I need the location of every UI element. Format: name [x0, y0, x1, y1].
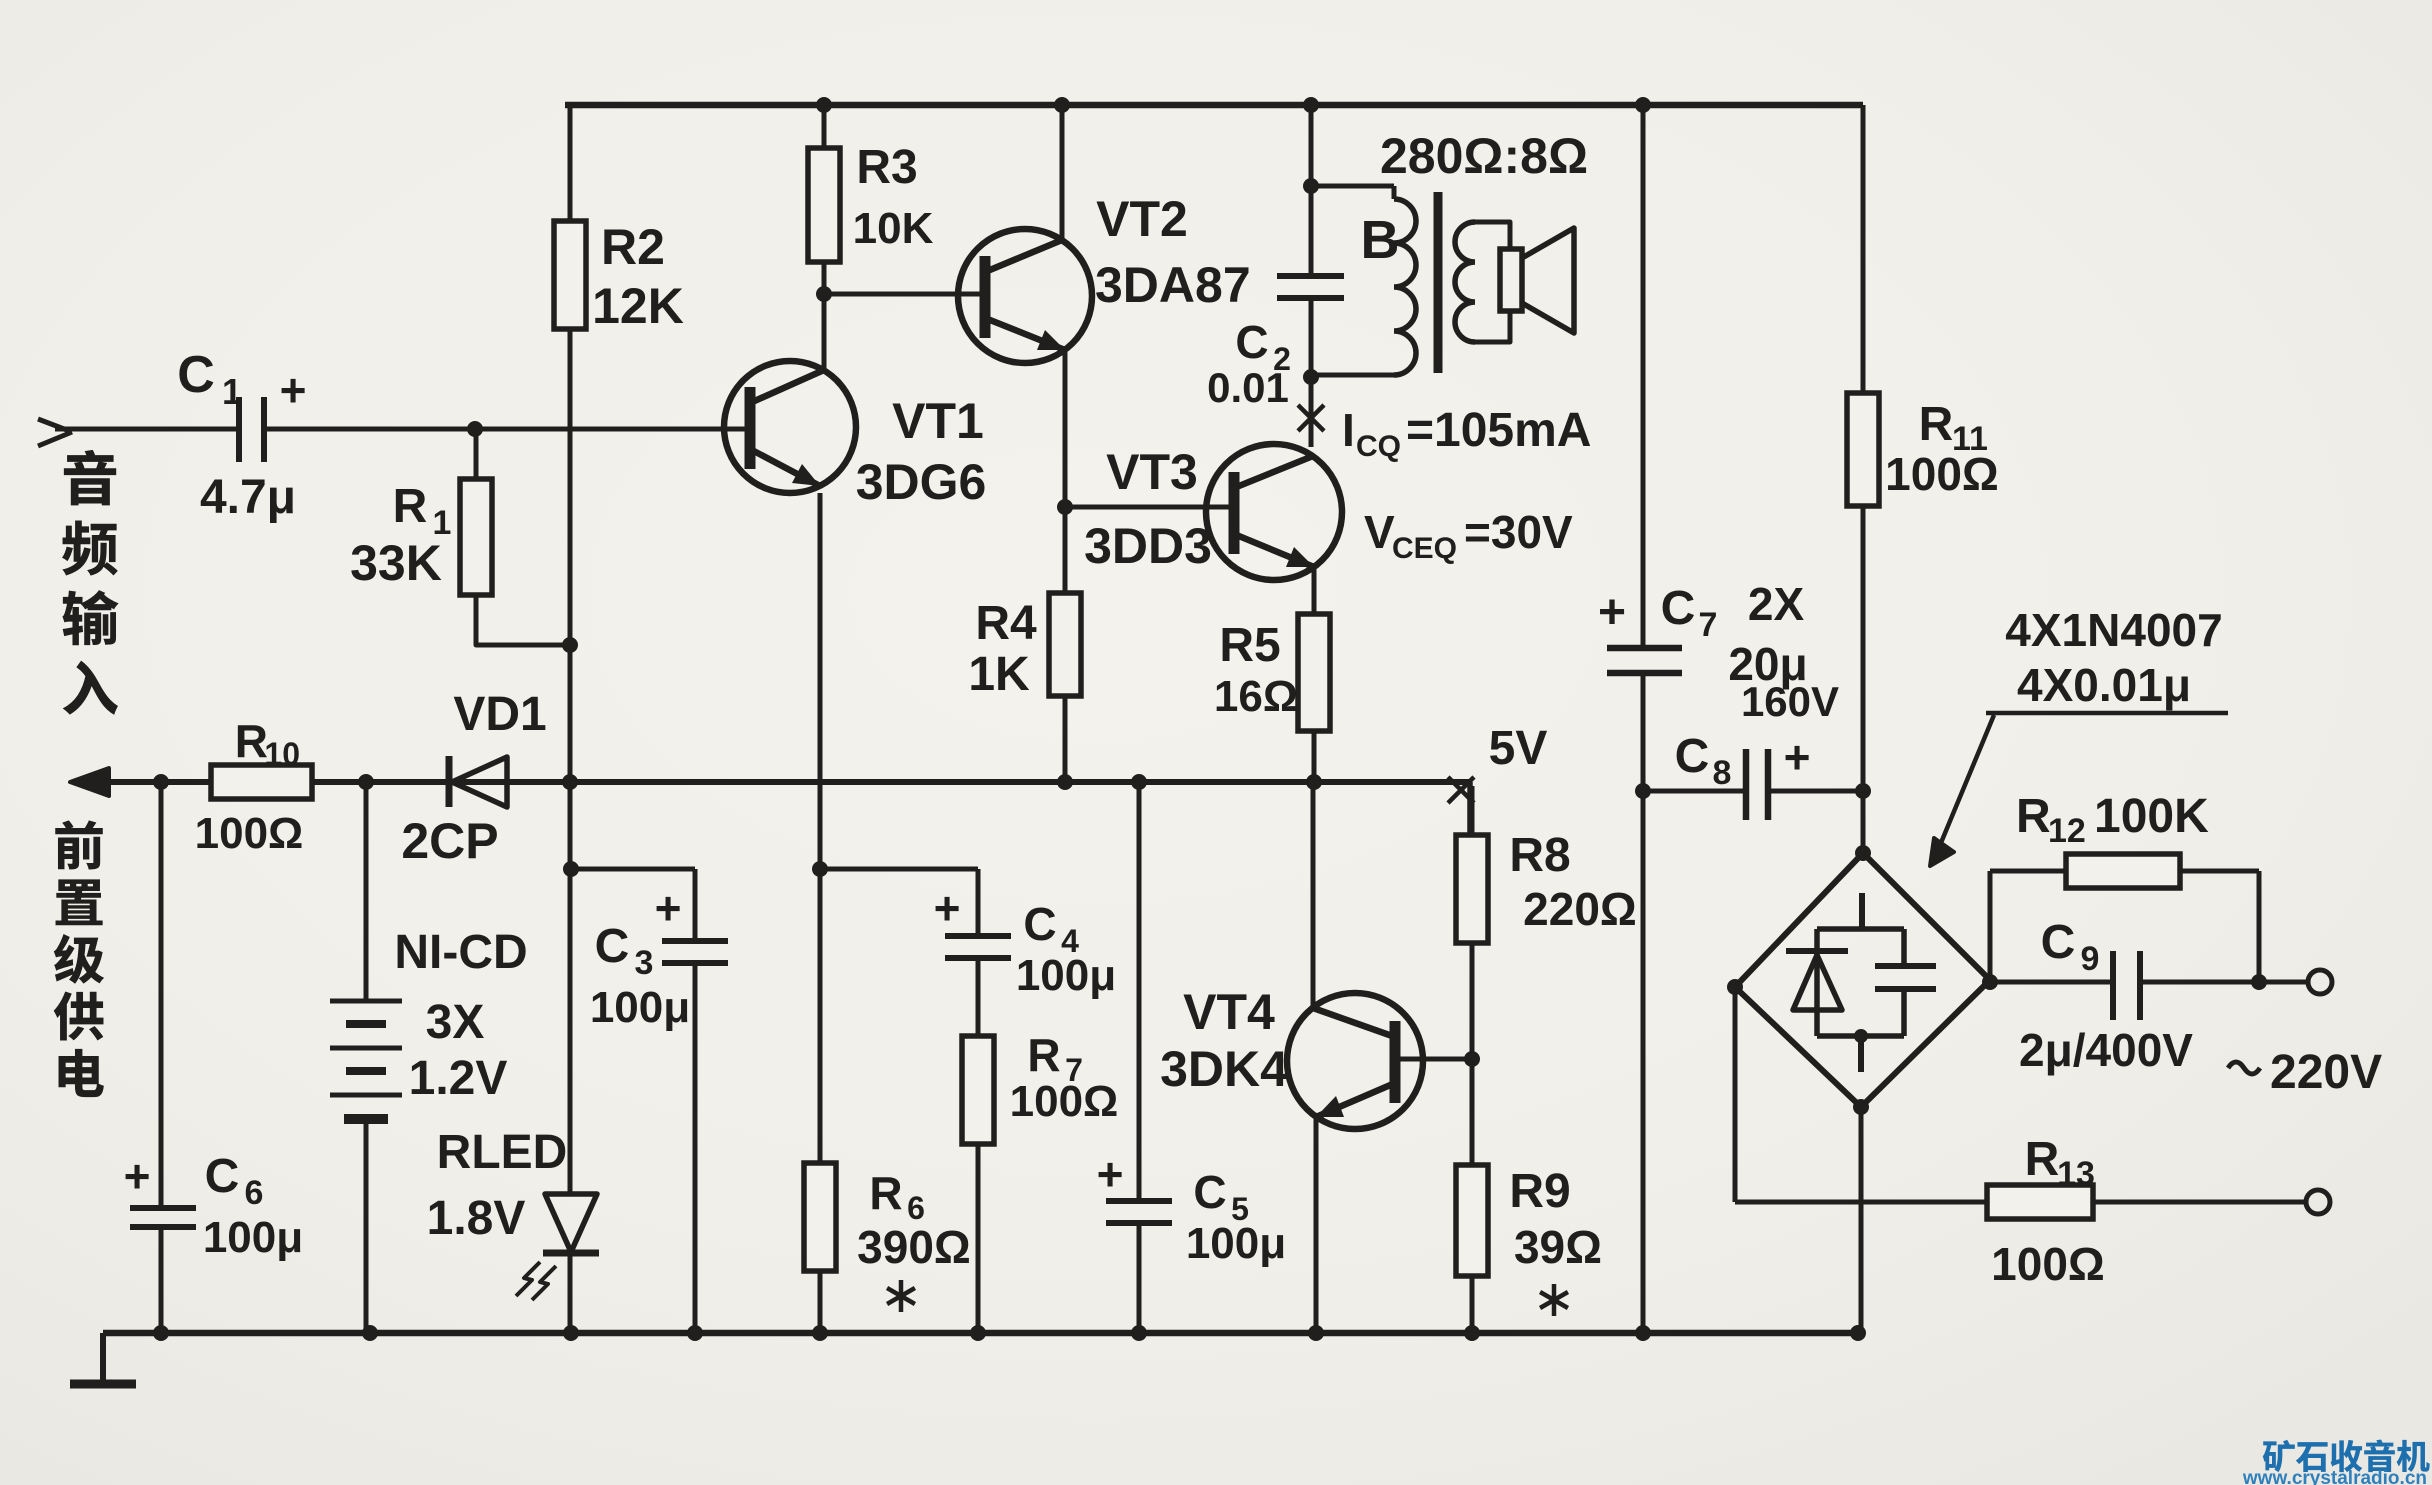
- wire R12 left drop: [1988, 871, 1993, 982]
- node C8/R11: [1855, 783, 1871, 799]
- svg-text:3DG6: 3DG6: [856, 454, 987, 510]
- svg-text:+: +: [1598, 586, 1626, 639]
- wire LED cathode to ground rail: [568, 1253, 573, 1333]
- svg-text:R4: R4: [975, 597, 1037, 650]
- svg-text:100μ: 100μ: [1016, 951, 1116, 1000]
- wire VT4 emitter: [1314, 1114, 1319, 1333]
- svg-text:160V: 160V: [1741, 678, 1839, 725]
- svg-text:R: R: [235, 715, 268, 767]
- wire C5 column top: [1137, 782, 1142, 1201]
- svg-text:100Ω: 100Ω: [1885, 448, 1999, 500]
- wire C6 top: [159, 782, 164, 1208]
- node mid rail VD1: [562, 774, 578, 790]
- node ground bridge: [1850, 1325, 1866, 1341]
- transistor VT3 3DD3: [1206, 444, 1342, 580]
- svg-text:2CP: 2CP: [401, 813, 498, 869]
- wire C7 column top: [1641, 105, 1646, 648]
- svg-text:2μ/400V: 2μ/400V: [2019, 1024, 2193, 1076]
- wire R8/R9 column: [1470, 786, 1475, 1333]
- node C4 branch: [812, 861, 828, 877]
- wire branch to C4: [820, 867, 978, 872]
- svg-text:39Ω: 39Ω: [1514, 1221, 1602, 1273]
- node mid rail C5: [1131, 774, 1147, 790]
- speaker: [1500, 249, 1522, 311]
- svg-text:+: +: [124, 1150, 151, 1202]
- wire C1 to VT1 base: [264, 427, 750, 432]
- svg-text:100μ: 100μ: [1186, 1219, 1286, 1268]
- wire R2/R1/VD1 column: [568, 105, 573, 1194]
- capacitor C4: [945, 933, 1011, 939]
- wire branch to C3: [571, 867, 695, 872]
- wire corner into R8: [1467, 782, 1473, 835]
- wire VT2 collector: [1060, 105, 1065, 240]
- wire C4 top: [976, 869, 981, 936]
- wire top supply rail: [565, 102, 1863, 109]
- svg-text:13: 13: [2057, 1155, 2095, 1193]
- svg-text:5V: 5V: [1489, 722, 1548, 775]
- transformer core: [1434, 192, 1443, 373]
- svg-text:CEQ: CEQ: [1392, 532, 1457, 565]
- capacitor C3: [662, 938, 728, 944]
- node bridge left: [1727, 979, 1743, 995]
- node R12/C9 corner: [2251, 974, 2267, 990]
- transistor VT1 3DG6: [724, 361, 856, 493]
- svg-text:V: V: [1364, 506, 1395, 558]
- svg-text:R5: R5: [1219, 619, 1280, 672]
- svg-text:8: 8: [1713, 754, 1732, 792]
- node transformer bottom tap: [1303, 369, 1319, 385]
- wire battery bottom: [364, 1119, 369, 1333]
- wire VT4 base to R8/R9: [1392, 1057, 1472, 1062]
- resistor R12: [2066, 854, 2180, 888]
- svg-text:3X: 3X: [426, 996, 485, 1049]
- capacitor C6: [130, 1205, 196, 1211]
- resistor R5: [1298, 614, 1330, 731]
- node top rail VT2 collector: [1054, 97, 1070, 113]
- svg-text:33K: 33K: [350, 535, 442, 591]
- svg-text:NI-CD: NI-CD: [394, 926, 527, 979]
- node R6 selection mark: [899, 1280, 904, 1312]
- bridge inner diode and capacitor: [1859, 893, 1865, 929]
- transistor VT4 3DK4: [1287, 993, 1423, 1129]
- node mid rail R5/VT4: [1306, 774, 1322, 790]
- resistor R10: [211, 765, 312, 799]
- node mid rail battery: [358, 774, 374, 790]
- wire middle rail (preamp supply / 5V): [74, 779, 1470, 785]
- wire C3 top: [693, 869, 698, 941]
- svg-text:R: R: [1027, 1029, 1060, 1081]
- svg-text:0.01: 0.01: [1207, 364, 1289, 411]
- node ground battery: [362, 1325, 378, 1341]
- svg-text:100μ: 100μ: [203, 1213, 303, 1262]
- node R9 selection mark: [1552, 1284, 1557, 1316]
- LED RLED: [545, 1194, 597, 1252]
- node ground R9: [1464, 1325, 1480, 1341]
- arrow from label to bridge: [1938, 715, 1994, 850]
- svg-text:+: +: [1784, 731, 1811, 783]
- svg-text:R: R: [2025, 1133, 2060, 1186]
- wire R12 right drop: [2257, 871, 2262, 982]
- svg-text:R9: R9: [1509, 1165, 1570, 1218]
- svg-text:3DD3: 3DD3: [1084, 518, 1212, 574]
- svg-text:6: 6: [245, 1174, 264, 1212]
- wire R11 column to bridge: [1861, 105, 1866, 853]
- svg-text:=105mA: =105mA: [1406, 404, 1591, 457]
- node ground C7: [1635, 1325, 1651, 1341]
- node bridge right: [1982, 974, 1998, 990]
- svg-text:C: C: [1023, 898, 1056, 950]
- svg-text:1: 1: [222, 371, 242, 412]
- capacitor C5: [1106, 1198, 1172, 1204]
- svg-text:+: +: [1097, 1148, 1124, 1200]
- wire VT1 emitter / R6 column: [818, 493, 823, 1333]
- node top rail C7: [1635, 97, 1651, 113]
- node ground C3: [687, 1325, 703, 1341]
- svg-text:=30V: =30V: [1464, 506, 1573, 558]
- svg-text:B: B: [1361, 210, 1400, 270]
- capacitor C8: [1743, 749, 1750, 820]
- node top rail R3: [816, 97, 832, 113]
- node audio input arrow: [38, 419, 72, 432]
- svg-text:R: R: [1919, 398, 1954, 451]
- wire R13 line: [1735, 1200, 2306, 1205]
- svg-text:220Ω: 220Ω: [1523, 883, 1637, 935]
- transformer B primary: [1311, 184, 1394, 189]
- svg-text:CQ: CQ: [1356, 430, 1401, 463]
- svg-text:C: C: [2041, 916, 2076, 969]
- svg-text:RLED: RLED: [437, 1126, 568, 1179]
- svg-text:100K: 100K: [2094, 790, 2209, 843]
- svg-text:4X1N4007: 4X1N4007: [2005, 604, 2222, 656]
- resistor R6: [804, 1163, 836, 1271]
- node C7/C8: [1635, 783, 1651, 799]
- node bridge bottom: [1853, 1099, 1869, 1115]
- battery NI-CD 3x1.2V: [330, 999, 402, 1004]
- wire C8 right: [1768, 789, 1863, 794]
- svg-text:4.7μ: 4.7μ: [200, 471, 296, 524]
- capacitor C1: [236, 397, 242, 462]
- svg-text:R: R: [393, 480, 428, 533]
- node input / R1: [467, 421, 483, 437]
- svg-text:220V: 220V: [2270, 1046, 2382, 1099]
- label preamp supply (Chinese): [55, 820, 103, 869]
- capacitor C7: [1607, 645, 1682, 652]
- node bridge top: [1855, 845, 1871, 861]
- svg-text:+: +: [655, 882, 682, 934]
- svg-text:VT4: VT4: [1183, 984, 1275, 1040]
- svg-text:3: 3: [635, 944, 654, 982]
- svg-text:9: 9: [2081, 940, 2100, 978]
- wire C3 bottom: [693, 963, 698, 1333]
- wire to C8 left: [1644, 789, 1746, 794]
- svg-text:10: 10: [264, 736, 300, 772]
- node mid rail C6: [153, 774, 169, 790]
- resistor R8: [1456, 835, 1488, 943]
- svg-text:VD1: VD1: [453, 688, 546, 741]
- node VT1 collector / R3: [816, 286, 832, 302]
- resistor R3: [808, 148, 840, 262]
- node top rail transformer: [1303, 97, 1319, 113]
- node VT4 base: [1464, 1051, 1480, 1067]
- node preamp supply arrow: [70, 768, 109, 796]
- wire C9 left: [1990, 980, 2113, 985]
- node 5V measure point: [1448, 777, 1474, 803]
- diode VD1 2CP: [446, 756, 453, 807]
- svg-text:3DA87: 3DA87: [1095, 257, 1251, 313]
- svg-text:2X: 2X: [1748, 578, 1805, 630]
- wire R1 top: [474, 429, 479, 479]
- node ground C6: [153, 1325, 169, 1341]
- node ICQ measure point: [1298, 405, 1324, 431]
- svg-text:1.2V: 1.2V: [409, 1052, 508, 1105]
- svg-text:7: 7: [1699, 606, 1718, 644]
- wire C2 column top: [1309, 105, 1314, 276]
- watermark crystalradio: [2263, 1440, 2295, 1472]
- svg-text:4X0.01μ: 4X0.01μ: [2017, 659, 2191, 711]
- resistor R11: [1847, 393, 1879, 506]
- svg-text:+: +: [934, 882, 961, 934]
- node ground R6: [812, 1325, 828, 1341]
- svg-text:C: C: [1661, 582, 1696, 635]
- svg-text:C: C: [595, 920, 630, 973]
- svg-text:3DK4: 3DK4: [1160, 1041, 1288, 1097]
- svg-text:R2: R2: [601, 219, 665, 275]
- svg-text:C: C: [1235, 316, 1268, 368]
- wire input to C1: [55, 427, 239, 432]
- label ~220V: [2228, 1062, 2260, 1074]
- wire C4/R7 column: [976, 958, 981, 1333]
- wire VT4 collector: [1311, 782, 1316, 1009]
- resistor R4: [1049, 593, 1081, 696]
- wire bridge bottom vertex down: [1859, 1107, 1864, 1333]
- wire C2 to VT3 collector: [1309, 298, 1314, 447]
- wire R1 bottom to column: [476, 595, 570, 645]
- node C3 branch: [563, 861, 579, 877]
- wire C9 right to terminal: [2140, 980, 2308, 985]
- svg-text:C: C: [205, 1150, 240, 1203]
- label audio input (Chinese): [64, 450, 116, 506]
- transistor VT2 3DA87: [958, 229, 1092, 363]
- wire battery top: [364, 782, 369, 1001]
- svg-text:100Ω: 100Ω: [1991, 1238, 2105, 1290]
- svg-text:R3: R3: [856, 141, 917, 194]
- resistor R7: [962, 1036, 994, 1144]
- svg-text:280Ω:8Ω: 280Ω:8Ω: [1380, 128, 1588, 184]
- svg-text:C: C: [1675, 730, 1710, 783]
- svg-text:100μ: 100μ: [590, 983, 690, 1032]
- resistor R13: [1987, 1185, 2093, 1219]
- resistor R9: [1456, 1165, 1488, 1276]
- wire R3 column / VT1 collector: [822, 105, 827, 372]
- svg-text:12K: 12K: [592, 278, 684, 334]
- svg-text:R: R: [2016, 790, 2051, 843]
- wire bridge left vertex down: [1733, 987, 1738, 1202]
- svg-text:VT1: VT1: [892, 393, 984, 449]
- wire VT3 emitter / R5 column: [1312, 567, 1317, 782]
- terminal AC 220V top: [2308, 970, 2332, 994]
- node ground VT4: [1308, 1325, 1324, 1341]
- wire VT3 base: [1065, 505, 1234, 510]
- svg-text:1K: 1K: [968, 648, 1030, 701]
- svg-text:C: C: [177, 346, 215, 404]
- capacitor C2: [1277, 273, 1344, 279]
- svg-text:+: +: [280, 364, 307, 416]
- node R1/R2: [562, 637, 578, 653]
- node VT2 emitter / VT3 base: [1057, 499, 1073, 515]
- svg-text:100Ω: 100Ω: [195, 809, 304, 858]
- resistor R2: [554, 221, 586, 329]
- svg-text:12: 12: [2048, 812, 2086, 850]
- svg-text:www.crystalradio.cn: www.crystalradio.cn: [2242, 1468, 2427, 1485]
- LED light arrows: [532, 1266, 556, 1300]
- wire VT1 collector to VT2 base: [824, 292, 985, 297]
- node mid rail R4: [1057, 774, 1073, 790]
- node ground R7: [970, 1325, 986, 1341]
- svg-text:C: C: [1193, 1166, 1226, 1218]
- bridge rectifier 4x1N4007: [1735, 853, 1990, 1107]
- svg-text:VT3: VT3: [1106, 444, 1198, 500]
- svg-text:R: R: [869, 1167, 902, 1219]
- wire C5 column bottom: [1137, 1223, 1142, 1333]
- svg-text:R8: R8: [1509, 829, 1570, 882]
- svg-text:1.8V: 1.8V: [427, 1192, 526, 1245]
- svg-text:VT2: VT2: [1096, 191, 1188, 247]
- ground: [100, 1333, 106, 1383]
- node ground LED: [563, 1325, 579, 1341]
- node ground C5: [1131, 1325, 1147, 1341]
- wire bottom ground rail: [103, 1330, 1858, 1337]
- svg-text:100Ω: 100Ω: [1010, 1077, 1119, 1126]
- capacitor C9: [2110, 951, 2116, 1020]
- wire VT2 emitter / R4 column: [1063, 352, 1068, 782]
- svg-text:I: I: [1342, 404, 1355, 456]
- resistor R1: [460, 479, 492, 595]
- svg-text:16Ω: 16Ω: [1214, 672, 1298, 721]
- terminal AC 220V bottom: [2306, 1190, 2330, 1214]
- wire R12 branch: [1990, 869, 2259, 874]
- node transformer top tap: [1303, 178, 1319, 194]
- svg-text:390Ω: 390Ω: [857, 1221, 971, 1273]
- transformer B secondary: [1455, 222, 1475, 342]
- wire C6 bottom: [159, 1227, 164, 1333]
- svg-text:10K: 10K: [853, 204, 934, 253]
- wire C7 column bottom: [1641, 673, 1646, 1333]
